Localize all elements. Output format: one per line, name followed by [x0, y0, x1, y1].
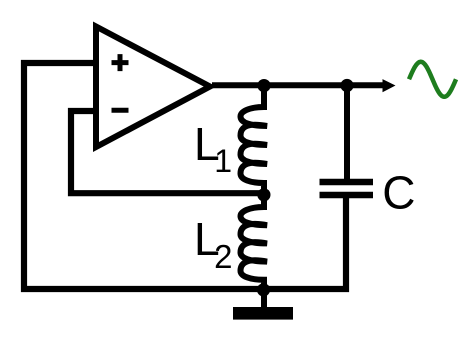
- svg-text:C: C: [382, 167, 415, 219]
- svg-text:2: 2: [214, 238, 232, 275]
- svg-text:1: 1: [214, 143, 232, 179]
